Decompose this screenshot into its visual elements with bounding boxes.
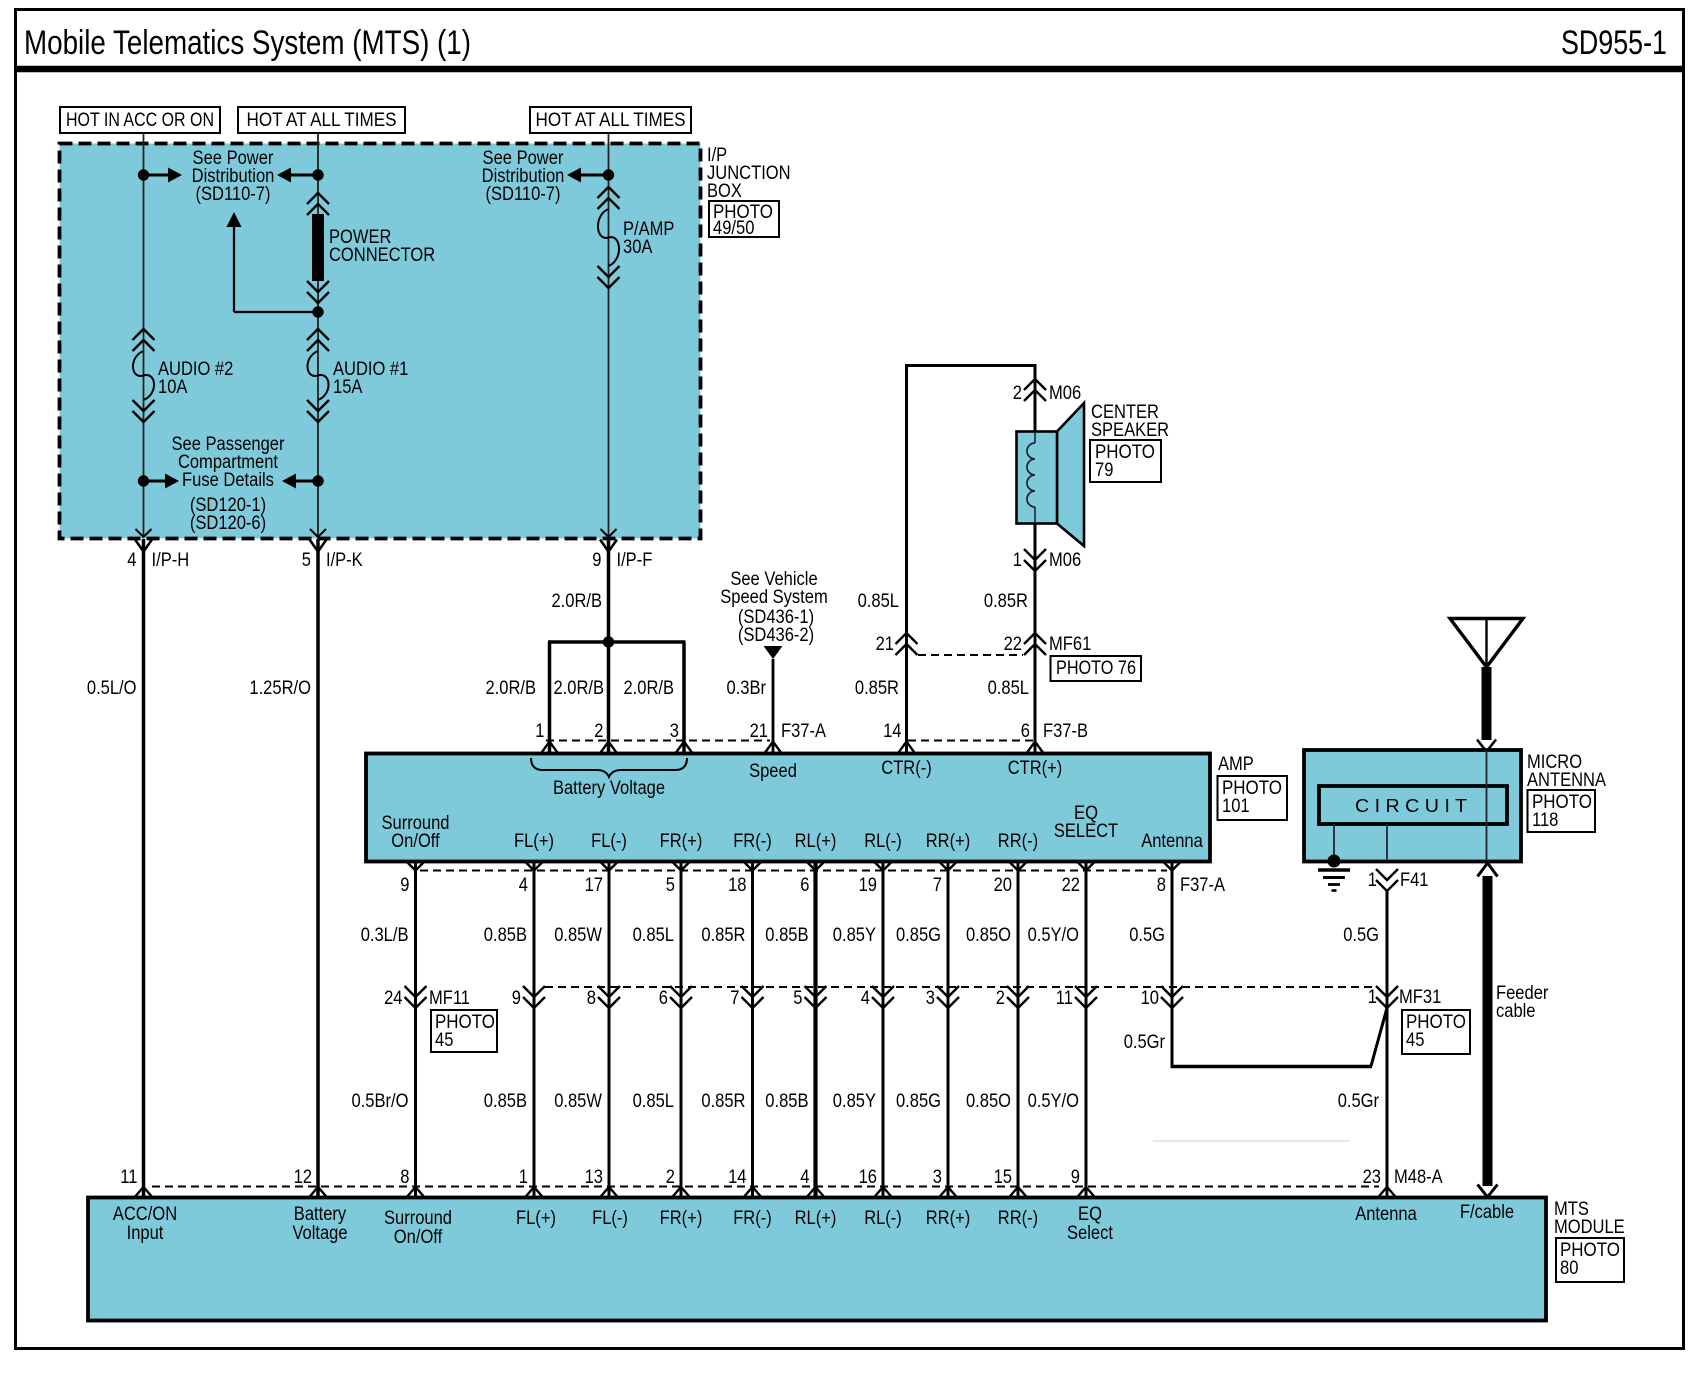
connector MF pin 7 on FR(-) wire [742, 986, 764, 997]
connector MF61 pin 21 [896, 633, 918, 644]
svg-text:CTR(+): CTR(+) [1008, 758, 1063, 779]
svg-text:CTR(-): CTR(-) [881, 758, 932, 779]
svg-text:0.5Br/O: 0.5Br/O [352, 1091, 409, 1112]
svg-text:2.0R/B: 2.0R/B [624, 678, 675, 699]
feeder cable [1478, 863, 1498, 877]
svg-text:RR(+): RR(+) [926, 1208, 971, 1229]
connector M06 pin 1 [1024, 549, 1046, 560]
wire 0.85L to center speaker (CTR-) [905, 364, 908, 754]
wire 0.85L FR(+) [680, 862, 683, 1197]
junction box pin 4 I/P-H [136, 529, 152, 537]
power label HOT AT ALL TIMES (audio #1) [238, 107, 405, 133]
svg-text:2: 2 [594, 721, 603, 742]
svg-text:2.0R/B: 2.0R/B [554, 678, 605, 699]
wire 2.0R/B branch to AMP pin 1 [548, 642, 552, 754]
svg-text:0.85R: 0.85R [701, 1091, 745, 1112]
MTS module pin 1 [524, 1187, 544, 1199]
svg-text:0.5Gr: 0.5Gr [1124, 1032, 1166, 1053]
svg-text:4: 4 [519, 875, 529, 896]
svg-text:Fuse Details: Fuse Details [182, 470, 274, 491]
svg-text:4: 4 [127, 550, 137, 571]
svg-text:9: 9 [512, 988, 521, 1009]
svg-text:M06: M06 [1049, 550, 1081, 571]
svg-text:0.85Y: 0.85Y [833, 925, 876, 946]
center speaker [1057, 403, 1084, 546]
arrow to power distribution from P/AMP feed [567, 168, 581, 183]
svg-text:RL(-): RL(-) [864, 1208, 902, 1229]
svg-text:4: 4 [861, 988, 871, 1009]
MTS module pin 16 [873, 1187, 893, 1199]
svg-text:MF61: MF61 [1049, 634, 1091, 655]
svg-text:0.85B: 0.85B [484, 1091, 527, 1112]
svg-text:7: 7 [933, 875, 942, 896]
ground [1328, 855, 1341, 868]
photo ref 45 of MF31 [1402, 1010, 1470, 1054]
connector MF pin 3 on RR(+) wire [937, 986, 959, 997]
photo ref 76 of MF61 [1051, 656, 1142, 681]
svg-text:I/P-F: I/P-F [617, 550, 653, 571]
svg-text:Speed: Speed [749, 761, 797, 782]
wire 1.25R/O battery voltage [316, 539, 320, 1197]
wire 0.5G F41 to MF31 [1386, 891, 1389, 1197]
photo ref 79 of center speaker [1090, 440, 1161, 482]
svg-text:Voltage: Voltage [292, 1223, 347, 1244]
svg-text:FR(-): FR(-) [733, 1208, 772, 1229]
battery voltage brace [531, 758, 687, 777]
svg-text:16: 16 [859, 1167, 877, 1188]
circuit block inside micro antenna [1319, 786, 1507, 824]
wire circuit to F41 [1386, 824, 1388, 861]
svg-text:1: 1 [1368, 987, 1377, 1008]
svg-text:0.85L: 0.85L [858, 591, 899, 612]
svg-text:14: 14 [883, 721, 902, 742]
svg-text:13: 13 [585, 1167, 603, 1188]
svg-text:17: 17 [585, 875, 603, 896]
MTS module pin 3 [938, 1187, 958, 1199]
wire 0.5Y/O EQ select [1085, 862, 1088, 1197]
svg-text:On/Off: On/Off [391, 831, 440, 852]
svg-text:Antenna: Antenna [1355, 1204, 1417, 1225]
svg-text:2: 2 [1013, 383, 1022, 404]
MTS module pin 4 [806, 1187, 826, 1199]
wire hot-in-acc feed [143, 133, 145, 538]
svg-text:2.0R/B: 2.0R/B [552, 591, 603, 612]
svg-text:Battery: Battery [294, 1204, 347, 1225]
svg-text:4: 4 [800, 1167, 810, 1188]
AMP bottom pin 9 [407, 862, 425, 871]
MTS module pin 8 [406, 1187, 426, 1199]
connector MF pin 24 on surround on/off wire [405, 986, 427, 997]
svg-text:F37-B: F37-B [1043, 721, 1088, 742]
wire antenna feed inside box [1486, 750, 1488, 861]
svg-text:0.85L: 0.85L [633, 1091, 674, 1112]
svg-text:0.85B: 0.85B [765, 1091, 808, 1112]
svg-text:24: 24 [384, 988, 403, 1009]
svg-text:RL(+): RL(+) [795, 831, 837, 852]
svg-text:ACC/ON: ACC/ON [113, 1204, 177, 1225]
svg-text:0.85W: 0.85W [554, 1091, 602, 1112]
svg-text:FL(+): FL(+) [514, 831, 554, 852]
svg-text:AMP: AMP [1218, 754, 1254, 775]
svg-text:HOT AT ALL TIMES: HOT AT ALL TIMES [536, 110, 686, 131]
AMP bottom connector dashed row F37-A [420, 870, 1167, 872]
connector M06 pin 2 [1024, 379, 1046, 390]
svg-text:15A: 15A [333, 377, 363, 398]
svg-text:21: 21 [876, 634, 894, 655]
svg-text:0.5G: 0.5G [1343, 925, 1379, 946]
svg-text:C I R C U I T: C I R C U I T [1355, 796, 1467, 816]
MTS module pin 12 [308, 1187, 328, 1199]
junction box pin 9 I/P-F [601, 529, 617, 537]
power label HOT IN ACC OR ON [60, 107, 220, 133]
svg-text:0.85W: 0.85W [554, 925, 602, 946]
svg-text:8: 8 [400, 1167, 409, 1188]
svg-text:RR(+): RR(+) [926, 831, 971, 852]
photo ref 45 of MF11 [431, 1010, 497, 1052]
svg-text:FL(+): FL(+) [516, 1208, 556, 1229]
svg-text:45: 45 [1406, 1030, 1424, 1051]
svg-text:3: 3 [926, 988, 935, 1009]
wire 0.85R FR(-) [751, 862, 754, 1197]
svg-text:I/P-K: I/P-K [326, 550, 363, 571]
AMP bottom pin 18 [744, 862, 762, 871]
amplifier AMP box [366, 754, 1210, 862]
svg-text:SD955-1: SD955-1 [1561, 24, 1667, 62]
svg-text:M48-A: M48-A [1394, 1167, 1443, 1188]
svg-text:21: 21 [750, 721, 768, 742]
wire 0.5L/O ACC/ON input [142, 539, 146, 1197]
svg-text:FL(-): FL(-) [592, 1208, 628, 1229]
svg-text:6: 6 [1021, 721, 1030, 742]
svg-text:(SD436-2): (SD436-2) [738, 625, 814, 646]
connector row MF dashed line [545, 986, 1374, 988]
wire 2.0R/B trunk from I/P-F [607, 539, 611, 754]
AMP bottom pin 6 [807, 862, 825, 871]
svg-text:HOT AT ALL TIMES: HOT AT ALL TIMES [247, 110, 397, 131]
AMP bottom pin 22 [1077, 862, 1095, 871]
connector MF pin 10 on AMP antenna wire [1161, 986, 1183, 997]
wire 0.85Y RL(-) [882, 862, 885, 1197]
svg-text:0.5Y/O: 0.5Y/O [1028, 1091, 1079, 1112]
svg-text:79: 79 [1095, 460, 1113, 481]
svg-text:ANTENNA: ANTENNA [1527, 770, 1606, 791]
svg-text:MODULE: MODULE [1554, 1217, 1625, 1238]
connector MF pin 11 on EQ select wire [1075, 986, 1097, 997]
wire 0.5G AMP antenna [1171, 862, 1174, 1066]
AMP bottom pin 8 [1163, 862, 1181, 871]
fuse P/AMP 30A [598, 187, 620, 198]
connector MF61 pin 22 [1024, 633, 1046, 644]
svg-text:5: 5 [666, 875, 675, 896]
connector MF pin 4 on RL(-) wire [872, 986, 894, 997]
svg-text:MF31: MF31 [1399, 987, 1441, 1008]
connector MF pin 5 on RL(+) wire [805, 986, 827, 997]
svg-text:FR(+): FR(+) [660, 1208, 703, 1229]
svg-text:HOT IN ACC OR ON: HOT IN ACC OR ON [66, 110, 214, 131]
svg-text:0.3L/B: 0.3L/B [361, 925, 409, 946]
connector F41 pin 1 [1376, 869, 1398, 880]
connector MF pin 9 on FL(+) wire [523, 986, 545, 997]
svg-text:0.85O: 0.85O [966, 1091, 1011, 1112]
wire 0.85W FL(-) [608, 862, 611, 1197]
svg-text:80: 80 [1560, 1258, 1578, 1279]
svg-text:0.85R: 0.85R [984, 591, 1028, 612]
node on I/P-K feed [312, 169, 323, 180]
svg-text:2.0R/B: 2.0R/B [486, 678, 537, 699]
AMP top connector dashed row [546, 740, 770, 742]
arrow to power distribution from I/P-H feed [144, 174, 169, 177]
svg-text:18: 18 [728, 875, 746, 896]
svg-text:cable: cable [1496, 1001, 1536, 1022]
svg-text:5: 5 [302, 550, 311, 571]
svg-text:14: 14 [728, 1167, 747, 1188]
fuse AUDIO #1 15A [307, 329, 329, 340]
svg-text:(SD110-7): (SD110-7) [486, 184, 561, 205]
svg-text:RL(+): RL(+) [795, 1208, 837, 1229]
svg-text:0.5L/O: 0.5L/O [87, 678, 137, 699]
svg-text:9: 9 [592, 550, 601, 571]
svg-text:RR(-): RR(-) [998, 1208, 1038, 1229]
svg-text:RR(-): RR(-) [998, 831, 1038, 852]
svg-text:6: 6 [800, 875, 809, 896]
svg-text:19: 19 [859, 875, 877, 896]
svg-text:1: 1 [1368, 870, 1377, 891]
svg-text:15: 15 [994, 1167, 1012, 1188]
svg-text:PHOTO 76: PHOTO 76 [1056, 658, 1136, 679]
svg-text:SPEAKER: SPEAKER [1091, 420, 1169, 441]
svg-text:CONNECTOR: CONNECTOR [329, 245, 435, 266]
svg-text:0.85L: 0.85L [988, 678, 1029, 699]
AMP top pin 2 [600, 742, 618, 755]
AMP top pin 21 [764, 742, 782, 755]
svg-text:Antenna: Antenna [1141, 831, 1203, 852]
photo ref 49/50 of junction box [709, 201, 779, 237]
svg-text:FR(-): FR(-) [733, 831, 772, 852]
svg-text:2: 2 [996, 988, 1005, 1009]
I/P junction box [60, 144, 701, 539]
svg-text:49/50: 49/50 [713, 218, 754, 239]
MTS module pin 13 [599, 1187, 619, 1199]
wire 0.85R to center speaker (CTR+) [1034, 364, 1037, 433]
svg-text:0.85B: 0.85B [765, 925, 808, 946]
AMP top pin 6 [1026, 742, 1044, 755]
MTS module pin 11 [134, 1187, 154, 1199]
fuse AUDIO #2 10A [133, 329, 155, 340]
svg-text:6: 6 [659, 988, 668, 1009]
connector MF pin 6 on FR(+) wire [670, 986, 692, 997]
node on I/P-F feed [603, 169, 614, 180]
svg-text:1.25R/O: 1.25R/O [249, 678, 311, 699]
svg-text:0.85R: 0.85R [701, 925, 745, 946]
svg-text:RL(-): RL(-) [864, 831, 902, 852]
AMP top pin 14 [898, 742, 916, 755]
svg-text:0.5Gr: 0.5Gr [1338, 1091, 1380, 1112]
connector MF61 dashed link [918, 654, 1023, 656]
wire 0.3L/B surround on/off [414, 862, 417, 1197]
node on I/P-K wire at fuse details [312, 475, 323, 486]
svg-text:BOX: BOX [707, 181, 742, 202]
wire 0.5Gr jog to MF31 [1171, 1065, 1373, 1069]
svg-text:FR(+): FR(+) [660, 831, 703, 852]
connector MF pin 8 on FL(-) wire [598, 986, 620, 997]
svg-text:Select: Select [1067, 1223, 1114, 1244]
connector MF31 pin 1 [1376, 986, 1398, 997]
svg-text:10: 10 [1141, 988, 1159, 1009]
svg-text:8: 8 [587, 988, 596, 1009]
MTS module pin 2 [671, 1187, 691, 1199]
arrow to fuse details from I/P-K wire [296, 480, 318, 483]
junction box pin 5 I/P-K [310, 529, 326, 537]
svg-text:0.85Y: 0.85Y [833, 1091, 876, 1112]
svg-text:I/P-H: I/P-H [152, 550, 190, 571]
svg-text:45: 45 [435, 1030, 453, 1051]
svg-text:Battery Voltage: Battery Voltage [553, 778, 665, 799]
MTS module pin 23 [1377, 1187, 1397, 1199]
AMP bottom pin 19 [874, 862, 892, 871]
svg-text:5: 5 [793, 988, 802, 1009]
svg-text:Speed System: Speed System [720, 587, 828, 608]
wire 0.85B FL(+) [533, 862, 536, 1197]
svg-text:20: 20 [994, 875, 1012, 896]
svg-text:23: 23 [1363, 1167, 1381, 1188]
wire hot-at-all-times feed (P/AMP) [608, 133, 610, 538]
svg-text:0.85R: 0.85R [855, 678, 899, 699]
svg-text:Surround: Surround [384, 1208, 452, 1229]
speed signal source triangle [764, 646, 783, 659]
AMP bottom pin 7 [939, 862, 957, 871]
MTS module pin 14 [743, 1187, 763, 1199]
photo ref 80 of MTS module [1556, 1238, 1624, 1282]
svg-text:3: 3 [670, 721, 679, 742]
power label HOT AT ALL TIMES (P/AMP) [530, 107, 691, 133]
svg-text:7: 7 [730, 988, 739, 1009]
svg-text:0.5G: 0.5G [1129, 925, 1165, 946]
svg-text:0.3Br: 0.3Br [727, 678, 767, 699]
svg-text:1: 1 [1013, 550, 1022, 571]
MTS module pin 15 [1008, 1187, 1028, 1199]
svg-text:11: 11 [120, 1167, 137, 1188]
svg-text:MF11: MF11 [429, 988, 470, 1009]
svg-text:9: 9 [1071, 1167, 1080, 1188]
svg-text:2: 2 [666, 1167, 675, 1188]
svg-text:1: 1 [519, 1167, 528, 1188]
wire 2.0R/B branch to AMP pin 3 [682, 642, 686, 754]
svg-text:22: 22 [1004, 634, 1022, 655]
node on I/P-H feed [138, 169, 149, 180]
connector row M48-A dashed line [152, 1186, 1379, 1188]
arrow to fuse details from I/P-H wire [144, 480, 166, 483]
connector MF pin 2 on RR(-) wire [1007, 986, 1029, 997]
svg-text:SELECT: SELECT [1054, 821, 1119, 842]
svg-text:22: 22 [1062, 875, 1080, 896]
svg-text:Input: Input [127, 1223, 164, 1244]
svg-text:101: 101 [1222, 796, 1250, 817]
MTS module pin 9 [1076, 1187, 1096, 1199]
svg-text:F/cable: F/cable [1460, 1202, 1514, 1223]
svg-text:Mobile Telematics System (MTS): Mobile Telematics System (MTS) (1) [24, 24, 471, 62]
antenna symbol [1450, 619, 1523, 668]
node on I/P-H wire at fuse details [138, 475, 149, 486]
AMP bottom pin 20 [1009, 862, 1027, 871]
svg-text:EQ: EQ [1078, 1204, 1102, 1225]
svg-text:118: 118 [1532, 810, 1558, 831]
svg-text:M06: M06 [1049, 383, 1081, 404]
svg-text:8: 8 [1157, 875, 1166, 896]
svg-text:1: 1 [535, 721, 544, 742]
power connector [307, 193, 329, 204]
svg-text:12: 12 [294, 1167, 312, 1188]
AMP bottom pin 4 [525, 862, 543, 871]
photo ref 118 of micro antenna [1528, 790, 1596, 832]
node below power connector [312, 306, 323, 317]
svg-text:(SD110-7): (SD110-7) [196, 184, 271, 205]
AMP bottom pin 17 [600, 862, 618, 871]
svg-text:9: 9 [400, 875, 409, 896]
svg-text:0.85L: 0.85L [633, 925, 674, 946]
svg-text:0.5Y/O: 0.5Y/O [1028, 925, 1079, 946]
svg-text:F37-A: F37-A [1180, 875, 1225, 896]
svg-text:(SD120-6): (SD120-6) [190, 513, 266, 534]
antenna mast [1482, 667, 1492, 740]
svg-text:0.85G: 0.85G [896, 925, 941, 946]
wire circuit to ground [1333, 824, 1335, 861]
svg-text:F37-A: F37-A [781, 721, 826, 742]
MTS module box [88, 1198, 1546, 1321]
branch arrow from power connector node [227, 212, 242, 227]
wire 0.3Br speed signal [772, 659, 775, 754]
svg-text:10A: 10A [158, 377, 188, 398]
svg-text:30A: 30A [623, 237, 653, 258]
wire hot-at-all-times feed (audio #1) [317, 133, 319, 538]
wire 0.85O RR(-) [1017, 862, 1020, 1197]
svg-text:0.85B: 0.85B [484, 925, 527, 946]
arrow to power distribution from I/P-K feed [277, 168, 291, 183]
AMP bottom pin 5 [672, 862, 690, 871]
wire 0.85G RR(+) [947, 862, 950, 1197]
svg-text:FL(-): FL(-) [591, 831, 627, 852]
svg-text:0.85G: 0.85G [896, 1091, 941, 1112]
node battery voltage split [603, 636, 614, 647]
micro antenna box [1304, 750, 1521, 862]
svg-text:0.85O: 0.85O [966, 925, 1011, 946]
svg-text:11: 11 [1056, 988, 1073, 1009]
svg-text:On/Off: On/Off [394, 1227, 443, 1248]
AMP top pin 1 [541, 742, 559, 755]
svg-text:F41: F41 [1400, 870, 1429, 891]
photo ref 101 of AMP [1218, 776, 1288, 820]
svg-text:3: 3 [933, 1167, 942, 1188]
wire 0.85B RL(+) [813, 862, 817, 1197]
AMP top pin 3 [675, 742, 693, 755]
